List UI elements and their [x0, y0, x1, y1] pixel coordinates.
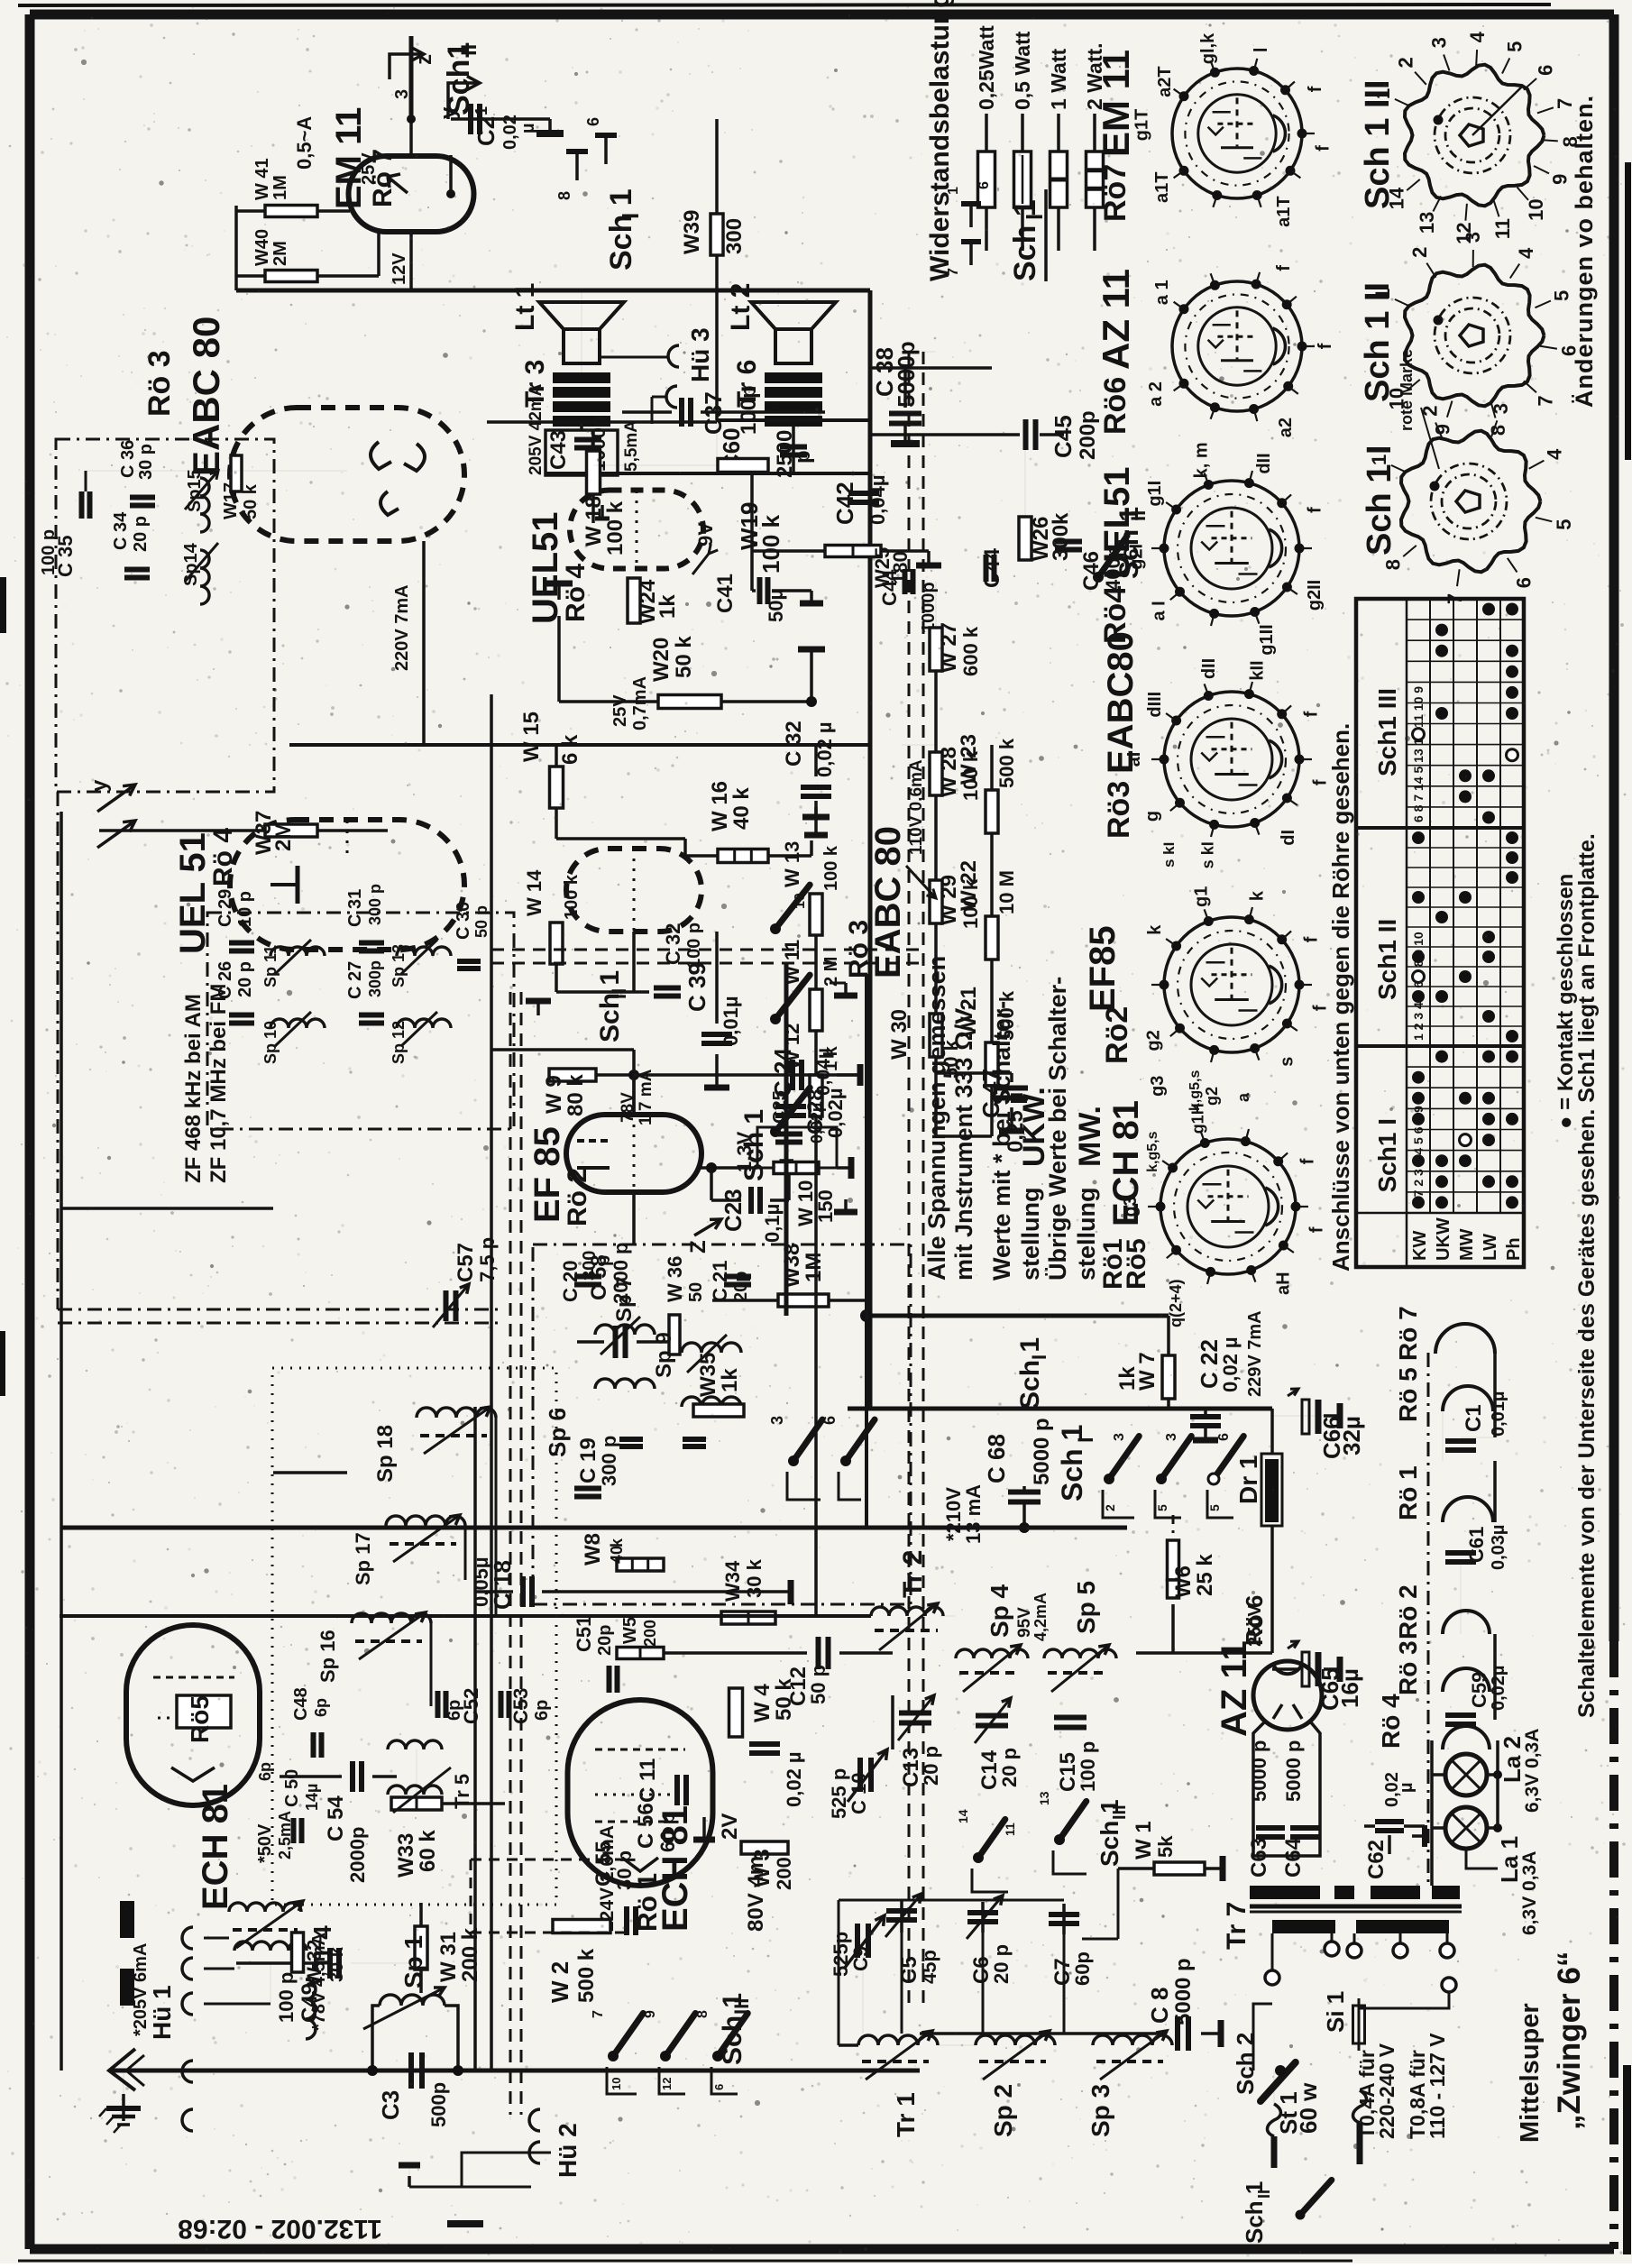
svg-text:220-240 V: 220-240 V	[1375, 2043, 1398, 2139]
svg-text:0,7mA: 0,7mA	[630, 676, 650, 730]
svg-text:200p: 200p	[1076, 410, 1100, 460]
svg-text:C 68: C 68	[983, 1434, 1010, 1483]
svg-text:2000 p: 2000 p	[610, 1243, 632, 1305]
svg-text:300 p: 300 p	[598, 1436, 620, 1486]
svg-text:I: I	[1074, 1437, 1098, 1443]
svg-text:100 p: 100 p	[39, 529, 59, 575]
svg-text:I: I	[1021, 214, 1048, 220]
svg-text:f: f	[1274, 265, 1294, 271]
svg-text:Sch 1 II: Sch 1 II	[1359, 282, 1397, 402]
svg-text:f: f	[1298, 1158, 1318, 1164]
svg-text:C51: C51	[573, 1616, 595, 1652]
svg-text:5000 p: 5000 p	[1282, 1740, 1305, 1803]
svg-text:C63: C63	[1247, 1838, 1271, 1878]
svg-text:C 10: C 10	[848, 1773, 870, 1814]
svg-text:1: 1	[946, 187, 961, 195]
svg-text:MW.: MW.	[1073, 1106, 1107, 1167]
svg-text:10 M: 10 M	[995, 870, 1018, 914]
svg-text:II: II	[1255, 2190, 1273, 2199]
svg-text:Rö 3: Rö 3	[1394, 1640, 1422, 1695]
svg-text:1M: 1M	[270, 175, 290, 200]
svg-text:14µ: 14µ	[303, 1784, 321, 1811]
svg-text:W 7: W 7	[1135, 1352, 1160, 1391]
svg-text:W8: W8	[581, 1533, 605, 1566]
svg-text:Tr 2: Tr 2	[898, 1550, 928, 1598]
svg-text:6p: 6p	[532, 1700, 552, 1721]
svg-text:0,25Watt: 0,25Watt	[975, 25, 998, 110]
svg-text:205V 42mA: 205V 42mA	[527, 383, 546, 475]
svg-text:1k: 1k	[718, 1368, 742, 1392]
svg-text:11: 11	[1491, 218, 1514, 239]
svg-text:Rö 2: Rö 2	[1394, 1584, 1422, 1639]
svg-text:4: 4	[1466, 31, 1489, 42]
svg-text:2000p: 2000p	[346, 1827, 369, 1883]
svg-text:Sch 1: Sch 1	[1015, 1337, 1045, 1409]
svg-text:Sp 16: Sp 16	[316, 1630, 339, 1683]
svg-text:W6: W6	[1171, 1566, 1196, 1598]
svg-text:Sp 18: Sp 18	[373, 1425, 398, 1483]
svg-text:C 19: C 19	[576, 1437, 601, 1483]
svg-text:C1: C1	[1462, 1404, 1486, 1432]
svg-text:Rö5: Rö5	[1122, 1238, 1151, 1290]
svg-text:20p: 20p	[731, 1272, 751, 1302]
svg-text:W 4: W 4	[750, 1684, 775, 1722]
svg-text:1M: 1M	[802, 1253, 826, 1282]
svg-text:C 39: C 39	[683, 962, 711, 1012]
svg-text:EABC 80: EABC 80	[185, 317, 227, 476]
svg-text:ECH 81: ECH 81	[196, 1784, 235, 1910]
svg-text:ZF 10,7 MHz bei FM: ZF 10,7 MHz bei FM	[206, 984, 231, 1183]
svg-text:20p: 20p	[595, 1625, 615, 1656]
svg-text:2: 2	[1103, 1504, 1117, 1511]
svg-text:C 31: C 31	[345, 889, 365, 927]
svg-text:Sch1 II: Sch1 II	[1373, 919, 1401, 1000]
svg-text:7,5 p: 7,5 p	[476, 1237, 499, 1282]
svg-text:f: f	[1306, 86, 1325, 92]
svg-text:ZF 468 kHz bei AM: ZF 468 kHz bei AM	[181, 994, 206, 1183]
svg-text:8: 8	[1382, 559, 1405, 570]
svg-text:Rö 2: Rö 2	[563, 1168, 592, 1226]
svg-text:Lt 1: Lt 1	[510, 283, 540, 331]
svg-text:W 30: W 30	[887, 1009, 912, 1060]
svg-text:30 k: 30 k	[743, 1558, 766, 1598]
svg-text:Hü 3: Hü 3	[686, 327, 714, 382]
svg-text:5: 5	[1551, 290, 1573, 301]
svg-text:500 k: 500 k	[995, 738, 1018, 788]
svg-text:6: 6	[821, 1416, 839, 1425]
svg-text:k, m: k, m	[1191, 442, 1211, 478]
svg-text:2: 2	[1408, 247, 1431, 258]
svg-text:C 32: C 32	[782, 721, 806, 767]
svg-text:10: 10	[793, 893, 808, 909]
svg-text:stellung: stellung	[1017, 1187, 1044, 1281]
svg-text:W20: W20	[649, 638, 674, 682]
svg-text:C 29: C 29	[215, 889, 235, 927]
svg-text:9: 9	[643, 2010, 658, 2018]
svg-text:dII: dII	[1254, 453, 1274, 473]
svg-text:Rö 4: Rö 4	[1377, 1694, 1405, 1749]
svg-text:6: 6	[584, 117, 602, 126]
svg-text:*50V: *50V	[255, 1823, 275, 1863]
svg-text:W33: W33	[394, 1833, 418, 1878]
svg-text:10: 10	[1525, 198, 1547, 220]
svg-text:Änderungen vo behalten.: Änderungen vo behalten.	[1571, 95, 1598, 408]
svg-text:Rö 5: Rö 5	[1394, 1367, 1422, 1422]
svg-text:f: f	[1302, 936, 1322, 942]
svg-text:Rö 6: Rö 6	[1241, 1595, 1268, 1646]
svg-text:Sch 1: Sch 1	[595, 970, 625, 1042]
svg-text:6: 6	[1535, 65, 1557, 76]
svg-text:C59: C59	[1468, 1672, 1490, 1708]
svg-text:100 k: 100 k	[821, 845, 841, 891]
svg-text:100 k: 100 k	[959, 878, 982, 929]
svg-text:5000 p: 5000 p	[1030, 1418, 1054, 1485]
svg-text:9: 9	[1549, 174, 1572, 185]
svg-text:0,01µ: 0,01µ	[1489, 1391, 1508, 1437]
svg-text:EM 11: EM 11	[1095, 50, 1137, 157]
svg-text:g1I: g1I	[1145, 481, 1165, 507]
svg-text:W 16: W 16	[708, 781, 732, 831]
svg-text:100 k: 100 k	[959, 750, 982, 801]
svg-text:Werte mit * bei Schalter-: Werte mit * bei Schalter-	[988, 1001, 1015, 1281]
svg-text:W40: W40	[252, 229, 272, 266]
svg-text:50: 50	[686, 1282, 706, 1302]
svg-text:Mittelsuper: Mittelsuper	[1516, 2003, 1545, 2143]
svg-text:0,05µ: 0,05µ	[470, 1557, 492, 1608]
svg-text:AZ 11: AZ 11	[1215, 1640, 1254, 1737]
svg-text:II: II	[457, 44, 481, 56]
svg-text:W 1: W 1	[1132, 1821, 1156, 1859]
svg-text:Sp 1: Sp 1	[399, 1935, 427, 1988]
svg-text:4,2mA: 4,2mA	[1031, 1593, 1050, 1641]
svg-text:kII: kII	[1247, 660, 1267, 680]
svg-text:100 p: 100 p	[275, 1972, 298, 2023]
svg-text:13 mA: 13 mA	[962, 1484, 985, 1544]
svg-text:9: 9	[1432, 424, 1454, 435]
svg-text:25V: 25V	[610, 694, 630, 727]
svg-text:Hü 1: Hü 1	[148, 1985, 176, 2040]
svg-text:110 - 127 V: 110 - 127 V	[1426, 2033, 1449, 2139]
svg-text:1000p: 1000p	[919, 582, 939, 633]
svg-text:30 k: 30 k	[327, 1946, 347, 1982]
svg-text:W38: W38	[780, 1244, 804, 1288]
svg-text:Dr 1: Dr 1	[1234, 1455, 1262, 1504]
svg-text:g1: g1	[1191, 886, 1211, 907]
svg-text:50 k: 50 k	[772, 1678, 796, 1721]
svg-text:C45: C45	[1050, 415, 1077, 458]
svg-text:220V 7mA: 220V 7mA	[392, 584, 412, 671]
svg-text:a2: a2	[1276, 418, 1296, 437]
svg-text:100 k: 100 k	[757, 514, 784, 574]
svg-text:mit Jnstrument 333 Ω/V.: mit Jnstrument 333 Ω/V.	[950, 1004, 977, 1281]
svg-text:0,02 µ: 0,02 µ	[1219, 1336, 1242, 1392]
svg-text:Sch 1 III: Sch 1 III	[1359, 79, 1397, 209]
svg-text:C9: C9	[849, 1946, 872, 1971]
svg-text:16µ: 16µ	[1336, 1668, 1363, 1708]
svg-text:300 p: 300 p	[366, 884, 384, 925]
svg-text:Sp15: Sp15	[185, 469, 205, 512]
svg-text:f: f	[1316, 343, 1335, 349]
svg-text:Lt 2: Lt 2	[726, 283, 756, 331]
svg-text:5: 5	[1553, 519, 1575, 529]
svg-text:25V: 25V	[359, 152, 379, 185]
svg-text:µ: µ	[518, 123, 538, 133]
svg-text:s kI: s kI	[1160, 842, 1178, 868]
svg-text:60 p: 60 p	[656, 1813, 679, 1852]
svg-text:0,04µ: 0,04µ	[866, 475, 889, 526]
svg-text:C 58: C 58	[587, 1254, 611, 1300]
svg-text:6: 6	[1512, 577, 1535, 588]
svg-text:30 p: 30 p	[136, 444, 156, 480]
svg-text:C 20: C 20	[559, 1261, 582, 1302]
svg-text:600 k: 600 k	[959, 626, 982, 676]
svg-text:a 2: a 2	[1146, 381, 1166, 407]
svg-text:KW: KW	[1410, 1231, 1430, 1261]
svg-text:6,3V 0,3A: 6,3V 0,3A	[1519, 1851, 1540, 1935]
svg-text:C 11: C 11	[636, 1758, 660, 1803]
svg-text:12: 12	[660, 2078, 674, 2090]
svg-text:W 27: W 27	[937, 622, 961, 673]
svg-text:C 27: C 27	[345, 961, 365, 999]
svg-text:6: 6	[1216, 1433, 1232, 1441]
svg-text:a1T: a1T	[1152, 171, 1172, 202]
svg-text:4: 4	[1515, 247, 1537, 259]
svg-text:AZ 11: AZ 11	[1095, 269, 1137, 370]
svg-text:Rö 7: Rö 7	[1394, 1306, 1422, 1361]
svg-text:3: 3	[1427, 37, 1450, 48]
svg-text:30 p: 30 p	[613, 1850, 636, 1890]
svg-text:Sp14: Sp14	[181, 542, 201, 586]
svg-text:I: I	[617, 213, 644, 219]
svg-text:300p: 300p	[366, 960, 384, 997]
svg-text:Ph: Ph	[1504, 1237, 1524, 1261]
svg-text:Sp 11: Sp 11	[261, 945, 280, 987]
svg-text:50 p: 50 p	[472, 905, 491, 938]
svg-text:C 56: C 56	[634, 1803, 658, 1849]
svg-text:5000p: 5000p	[893, 341, 920, 408]
svg-text:1k: 1k	[656, 594, 680, 619]
svg-text:Sp 17: Sp 17	[352, 1532, 374, 1585]
svg-text:6: 6	[976, 181, 992, 189]
svg-text:Rö5: Rö5	[186, 1695, 214, 1743]
svg-text:C 24: C 24	[769, 1048, 796, 1097]
svg-text:f: f	[1302, 711, 1322, 717]
svg-text:s: s	[1278, 1057, 1297, 1067]
svg-text:f: f	[1307, 1226, 1327, 1233]
svg-text:W34: W34	[721, 1560, 744, 1602]
svg-text:Z: Z	[686, 1240, 711, 1253]
svg-text:3: 3	[1164, 1433, 1179, 1441]
svg-text:dII: dII	[1199, 658, 1219, 679]
svg-text:10: 10	[610, 2078, 623, 2090]
svg-text:50 k: 50 k	[672, 636, 696, 678]
svg-text:5: 5	[1155, 1504, 1169, 1511]
svg-text:0,01µ: 0,01µ	[720, 996, 742, 1047]
svg-text:p: p	[791, 450, 815, 464]
svg-text:C53: C53	[509, 1688, 532, 1724]
svg-text:25 k: 25 k	[1193, 1554, 1217, 1596]
svg-text:UEL51: UEL51	[526, 512, 565, 625]
svg-text:Tr 7: Tr 7	[1222, 1902, 1252, 1950]
svg-text:Sp 5: Sp 5	[1072, 1581, 1100, 1634]
svg-text:0,02µ: 0,02µ	[1489, 1666, 1508, 1711]
svg-text:7: 7	[591, 2010, 606, 2018]
svg-text:C 30: C 30	[454, 902, 473, 940]
svg-text:1,7 mA: 1,7 mA	[637, 1069, 656, 1125]
svg-text:8: 8	[695, 2010, 711, 2018]
svg-text:k: k	[1145, 924, 1165, 935]
svg-text:Anschlüsse von unten gegen die: Anschlüsse von unten gegen die Röhre ges…	[1327, 723, 1354, 1272]
svg-text:„Zwinger 6“: „Zwinger 6“	[1552, 1951, 1587, 2130]
svg-text:C23: C23	[720, 1189, 747, 1232]
svg-text:W 3: W 3	[750, 1849, 775, 1887]
svg-text:C2: C2	[472, 116, 500, 146]
svg-text:f: f	[1306, 507, 1325, 513]
svg-text:EF 85: EF 85	[527, 1126, 567, 1223]
svg-text:6 k: 6 k	[558, 734, 582, 765]
svg-text:20 p: 20 p	[235, 961, 255, 997]
svg-text:20 p: 20 p	[920, 1746, 942, 1786]
svg-text:a I: a I	[1149, 601, 1169, 620]
svg-text:6 8 7 14 5 13 12 11 10 9: 6 8 7 14 5 13 12 11 10 9	[1411, 686, 1426, 822]
svg-text:g2II: g2II	[1305, 580, 1325, 611]
svg-text:W39: W39	[680, 210, 704, 254]
svg-text:200: 200	[641, 1620, 659, 1647]
svg-text:C57: C57	[454, 1243, 478, 1282]
svg-text:20 p: 20 p	[990, 1944, 1013, 1984]
svg-text:11: 11	[1003, 1823, 1017, 1836]
svg-text:0,02: 0,02	[500, 115, 520, 150]
svg-text:6p: 6p	[256, 1762, 274, 1781]
svg-text:C 50: C 50	[282, 1769, 302, 1807]
svg-text:II: II	[608, 988, 630, 999]
svg-text:100 p: 100 p	[1077, 1741, 1099, 1792]
svg-text:8: 8	[555, 191, 573, 200]
svg-text:Sch1 III: Sch1 III	[1373, 688, 1401, 776]
svg-text:60 w: 60 w	[1295, 2082, 1322, 2134]
svg-text:UKW: UKW	[1434, 1217, 1453, 1261]
svg-text:gl,k: gl,k	[1198, 32, 1218, 64]
svg-text:rote Marke: rote Marke	[1398, 349, 1416, 431]
svg-text:Übrige Werte bei Schalter-: Übrige Werte bei Schalter-	[1044, 977, 1071, 1281]
svg-text:0,5 Watt: 0,5 Watt	[1011, 31, 1034, 110]
svg-text:14: 14	[956, 1809, 970, 1823]
svg-text:4: 4	[1544, 448, 1566, 460]
svg-text:10 p: 10 p	[235, 891, 255, 927]
svg-text:5k: 5k	[1154, 1835, 1177, 1858]
svg-text:100 k: 100 k	[603, 500, 628, 556]
svg-text:µ: µ	[1397, 1782, 1417, 1793]
svg-text:Rö 4: Rö 4	[561, 564, 591, 622]
svg-text:C 34: C 34	[111, 511, 131, 550]
svg-text:100 p: 100 p	[684, 923, 704, 969]
svg-text:EABC 80: EABC 80	[868, 826, 908, 978]
svg-text:Sch 1: Sch 1	[1056, 1425, 1088, 1501]
svg-text:g3: g3	[1148, 1076, 1168, 1097]
svg-text:C 55: C 55	[591, 1841, 616, 1887]
svg-text:0,03µ: 0,03µ	[1489, 1525, 1508, 1570]
svg-text:Sp 13: Sp 13	[390, 944, 408, 987]
svg-text:EF85: EF85	[1083, 925, 1123, 1012]
svg-text:13: 13	[1037, 1791, 1051, 1805]
svg-text:y: y	[87, 779, 112, 792]
svg-text:20 p: 20 p	[998, 1748, 1021, 1787]
svg-text:3: 3	[1112, 1433, 1127, 1441]
svg-text:2: 2	[1395, 57, 1417, 68]
svg-text:400p: 400p	[1102, 546, 1124, 591]
svg-text:dI: dI	[1279, 830, 1298, 846]
svg-text:2M: 2M	[270, 241, 290, 266]
svg-text:Hü 2: Hü 2	[554, 2123, 582, 2178]
svg-text:f: f	[1314, 145, 1334, 152]
svg-text:200: 200	[773, 1857, 795, 1890]
svg-text:Sch 1: Sch 1	[1008, 199, 1042, 281]
svg-text:k: k	[608, 1538, 626, 1547]
svg-text:Sp 9: Sp 9	[652, 1332, 676, 1378]
svg-text:C 36: C 36	[118, 440, 138, 478]
svg-text:3: 3	[1490, 403, 1512, 414]
svg-text:Sp 10: Sp 10	[261, 1021, 280, 1064]
svg-text:40 k: 40 k	[729, 787, 754, 830]
svg-text:W 13: W 13	[781, 841, 803, 887]
svg-text:Rö7: Rö7	[1098, 164, 1132, 222]
svg-text:1,3V: 1,3V	[733, 1131, 756, 1172]
svg-text:W 41: W 41	[252, 158, 272, 200]
svg-text:5000 p: 5000 p	[1171, 1958, 1196, 2025]
svg-text:Rö2: Rö2	[1100, 1006, 1134, 1064]
svg-text:z: z	[412, 54, 436, 65]
svg-text:7: 7	[946, 268, 961, 276]
svg-text:60p: 60p	[1071, 1951, 1094, 1986]
svg-text:9V: 9V	[694, 522, 717, 546]
svg-text:C 54: C 54	[324, 1795, 348, 1841]
svg-text:C 21: C 21	[709, 1261, 731, 1302]
svg-text:Sp 12: Sp 12	[390, 1021, 408, 1064]
svg-text:1132.002 - 02:68: 1132.002 - 02:68	[178, 2214, 382, 2244]
svg-text:W 9: W 9	[542, 1075, 566, 1114]
svg-text:Rö 4: Rö 4	[208, 828, 238, 886]
svg-text:Sch 1 I: Sch 1 I	[1361, 445, 1398, 556]
svg-text:110V 0,6mA: 110V 0,6mA	[907, 759, 926, 855]
svg-text:32µ: 32µ	[1338, 1416, 1365, 1455]
svg-text:l: l	[1252, 48, 1271, 53]
svg-text:ECH 81: ECH 81	[1106, 1100, 1146, 1226]
svg-text:k,g5,s: k,g5,s	[1145, 1131, 1160, 1171]
svg-text:s kI: s kI	[1199, 841, 1217, 868]
svg-text:3: 3	[1462, 232, 1484, 243]
svg-text:6,3V 0,3A: 6,3V 0,3A	[1522, 1729, 1543, 1813]
svg-text:C3: C3	[377, 2090, 404, 2120]
svg-text:200 k: 200 k	[458, 1927, 482, 1982]
svg-text:C64: C64	[1281, 1837, 1306, 1878]
svg-text:III: III	[730, 1998, 753, 2015]
svg-text:0,02µ: 0,02µ	[824, 1088, 847, 1139]
svg-text:80 k: 80 k	[564, 1074, 588, 1116]
svg-text:229V 7mA: 229V 7mA	[1245, 1310, 1265, 1397]
svg-text:Sch1 I: Sch1 I	[1373, 1118, 1401, 1192]
svg-text:W 31: W 31	[436, 1932, 461, 1982]
svg-text:III: III	[1110, 1804, 1130, 1820]
svg-text:k: k	[1247, 890, 1267, 901]
svg-text:dIII: dIII	[1145, 692, 1165, 718]
svg-text:a 1: a 1	[1152, 280, 1172, 305]
svg-text:Si 1: Si 1	[1322, 1991, 1349, 2033]
svg-text:13: 13	[1416, 212, 1438, 234]
svg-text:g1II: g1II	[1257, 624, 1277, 655]
svg-text:Schaltelemente von der Unterse: Schaltelemente von der Unterseite des Ge…	[1574, 833, 1600, 1718]
svg-text:MW: MW	[1457, 1228, 1477, 1261]
svg-text:Rö 3: Rö 3	[142, 350, 177, 417]
